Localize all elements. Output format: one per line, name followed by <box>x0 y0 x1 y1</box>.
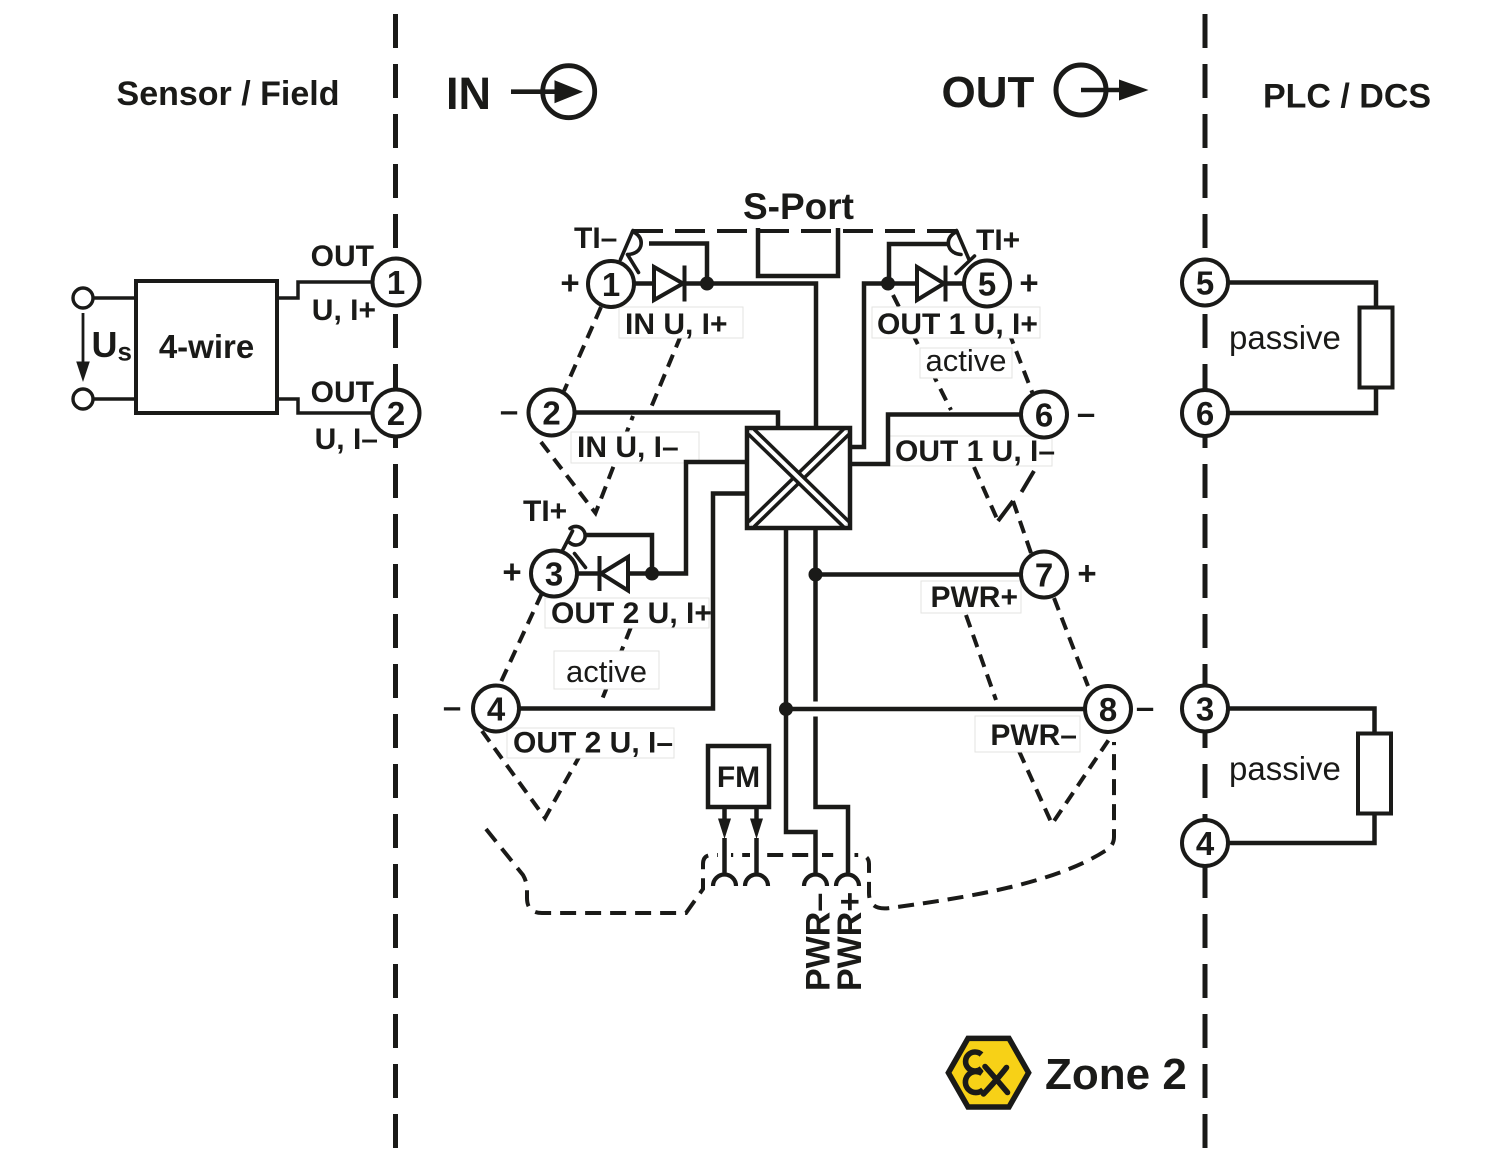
svg-text:–: – <box>1136 689 1154 726</box>
wire : dashed vee below terminal 8 <box>1019 735 1112 824</box>
svg-text:5: 5 <box>1196 265 1214 302</box>
svg-text:PWR+: PWR+ <box>930 581 1018 614</box>
wire : terminal 4 row into isolator <box>519 494 747 709</box>
wire : white halos where leads cross plug boundary <box>725 840 849 872</box>
wire : terminal 3 row into isolator <box>578 462 748 574</box>
terminal : source top open circle <box>73 288 93 308</box>
svg-text:+: + <box>502 553 521 590</box>
terminal 5 (module) <box>964 261 1010 307</box>
svg-text:4: 4 <box>1196 825 1215 862</box>
wire : terminal 5 branch from isolator <box>850 284 964 448</box>
svg-text:TI+: TI+ <box>523 495 567 528</box>
component : TI+ test jack left <box>563 526 586 567</box>
diode D2 (output 2) <box>600 556 629 591</box>
wire : terminal 1 row into isolator <box>635 284 817 429</box>
svg-text:Sensor / Field: Sensor / Field <box>117 75 340 113</box>
svg-text:6: 6 <box>1035 397 1053 434</box>
terminal 8 (module) <box>1085 686 1131 732</box>
node OUT U,I+ label (field side) <box>311 240 376 327</box>
wire : source bottom lead <box>93 397 136 401</box>
svg-text:3: 3 <box>545 556 563 593</box>
terminal 3 (module) <box>531 551 577 597</box>
wire : 4-wire box to terminal 1 <box>277 282 373 298</box>
wire : TI+ tap link <box>587 535 653 574</box>
node Us supply arrow <box>76 313 90 382</box>
wire : dashed vee below terminal 4 <box>482 731 583 818</box>
svg-text:Zone 2: Zone 2 <box>1045 1050 1187 1099</box>
resistor R1 (passive load top) <box>1360 308 1393 388</box>
terminal 5 (PLC) <box>1182 260 1228 306</box>
wire : resistor to PLC terminal 6 <box>1228 388 1376 414</box>
svg-text:TI+: TI+ <box>976 224 1020 257</box>
svg-text:+: + <box>560 264 579 301</box>
wire : PLC terminal 5 to resistor <box>1228 283 1376 308</box>
svg-text:active: active <box>566 654 647 689</box>
wire : S-Port stub <box>758 228 838 276</box>
svg-text:8: 8 <box>1099 691 1117 728</box>
svg-text:OUT: OUT <box>311 240 374 273</box>
svg-text:4: 4 <box>487 691 506 728</box>
wire : PLC terminal 3 to resistor <box>1228 709 1375 734</box>
component : 4-wire sensor box <box>136 281 277 413</box>
wire : resistor to PLC terminal 4 <box>1228 814 1375 844</box>
svg-text:–: – <box>443 688 461 725</box>
svg-text:–: – <box>500 392 518 429</box>
wire : PWR- row <box>786 707 1085 712</box>
wire : dashed vee below terminal 2 <box>541 416 633 513</box>
svg-text:PWR+: PWR+ <box>831 892 869 991</box>
wire : dashed alt link row7 to row8 <box>966 615 996 700</box>
svg-text:OUT 2 U, I–: OUT 2 U, I– <box>513 727 673 760</box>
wire : PWR+ row <box>816 572 1022 577</box>
svg-text:TI–: TI– <box>574 222 617 255</box>
svg-text:5: 5 <box>978 266 996 303</box>
resistor R2 (passive load bottom) <box>1358 734 1391 814</box>
svg-text:active: active <box>926 343 1007 378</box>
node Us label <box>92 324 132 367</box>
svg-text:OUT: OUT <box>942 68 1035 117</box>
svg-text:U, I–: U, I– <box>315 423 378 456</box>
svg-text:OUT 2 U, I+: OUT 2 U, I+ <box>551 597 712 630</box>
svg-text:OUT 1 U, I+: OUT 1 U, I+ <box>877 308 1038 341</box>
svg-text:+: + <box>1019 264 1038 301</box>
component : TI- test jack <box>621 231 642 273</box>
wire : dashed plug connector boundary <box>486 742 1114 913</box>
svg-text:OUT: OUT <box>311 376 374 409</box>
component : FM box <box>708 746 769 807</box>
node OUT U,I- label (field side) <box>311 376 378 456</box>
svg-text:U: U <box>92 324 118 365</box>
wire : terminal 2 row into isolator <box>575 413 778 429</box>
terminal 6 (module) <box>1021 392 1067 438</box>
component : TI+ test jack right <box>948 231 974 274</box>
node polarity signs <box>443 264 1154 726</box>
node OUT icon <box>1056 65 1149 115</box>
wire : TI- tap link <box>649 244 707 284</box>
node junction dots <box>645 277 895 717</box>
wire : dashed alt link terminal 1 to 2 <box>564 307 601 391</box>
terminal 3 (PLC) <box>1182 686 1228 732</box>
terminal 2 (module) <box>529 390 575 436</box>
svg-text:IN U, I+: IN U, I+ <box>625 308 728 341</box>
svg-text:7: 7 <box>1035 557 1053 594</box>
diode D3 (output 1) <box>917 266 946 302</box>
terminal 1 (field) <box>373 259 420 306</box>
wire : dashed alt link terminal 5 to 6 <box>1001 312 1034 397</box>
svg-text:IN: IN <box>446 68 491 119</box>
terminal 2 (field) <box>373 390 420 437</box>
wire : TI+ tap link right <box>889 244 949 284</box>
svg-text:4-wire: 4-wire <box>159 328 254 365</box>
wire : PWR- drop to plug <box>786 528 816 873</box>
svg-text:IN U, I–: IN U, I– <box>577 431 679 464</box>
wire : PWR+ drop to plug <box>816 528 849 873</box>
svg-text:+: + <box>1077 555 1096 592</box>
wire : left zone divider dashed line <box>393 14 398 1162</box>
node IN icon <box>511 66 595 118</box>
wire : dashed alt link terminal 3 to 4 <box>500 593 542 684</box>
diode D1 (input) <box>654 266 685 302</box>
wire : source top lead <box>93 296 136 300</box>
component : isolator barrier box U1 <box>747 428 850 528</box>
terminal : plug contact arcs <box>713 875 859 887</box>
wire : right zone divider dashed line <box>1203 14 1208 1162</box>
svg-text:FM: FM <box>717 761 760 794</box>
wire : dashed alt link terminal 7 to 8 <box>1054 598 1088 686</box>
svg-text:passive: passive <box>1229 750 1341 787</box>
terminal 4 (module) <box>473 686 519 732</box>
svg-text:passive: passive <box>1229 319 1341 356</box>
svg-text:2: 2 <box>542 395 560 432</box>
wire : terminal 6 branch from isolator <box>850 415 1021 465</box>
svg-text:6: 6 <box>1196 395 1214 432</box>
svg-text:PLC / DCS: PLC / DCS <box>1263 78 1431 116</box>
svg-text:U, I+: U, I+ <box>312 294 376 327</box>
wire : dashed link terminal 6 to 7 with zigzag <box>974 467 1034 553</box>
wire : FM output leads <box>725 807 757 873</box>
wire : 4-wire box to terminal 2 <box>277 399 373 413</box>
terminal 4 (PLC) <box>1182 820 1228 866</box>
svg-text:–: – <box>1077 395 1095 432</box>
terminal 1 (module) <box>588 261 634 307</box>
wire : dashed alt link row3 to row4 <box>601 627 631 702</box>
node label backgrounds <box>507 307 1080 758</box>
svg-text:OUT 1 U, I–: OUT 1 U, I– <box>895 435 1055 468</box>
svg-text:S-Port: S-Port <box>743 186 854 227</box>
svg-text:1: 1 <box>387 264 405 301</box>
svg-text:2: 2 <box>387 395 405 432</box>
svg-text:PWR–: PWR– <box>990 719 1077 752</box>
wire : dashed alt link row1 to row2 <box>650 316 689 410</box>
node FM arrowheads <box>718 819 763 840</box>
svg-text:s: s <box>118 337 132 367</box>
terminal 7 (module) <box>1021 552 1067 598</box>
svg-text:1: 1 <box>602 266 620 303</box>
terminal 6 (PLC) <box>1182 390 1228 436</box>
component : Ex hexagon symbol <box>948 1038 1028 1107</box>
wire : S-Port dashed bus <box>633 229 956 233</box>
svg-text:3: 3 <box>1196 691 1214 728</box>
wire : dashed alt link row5 area <box>893 295 951 410</box>
terminal : source bottom open circle <box>73 389 93 409</box>
